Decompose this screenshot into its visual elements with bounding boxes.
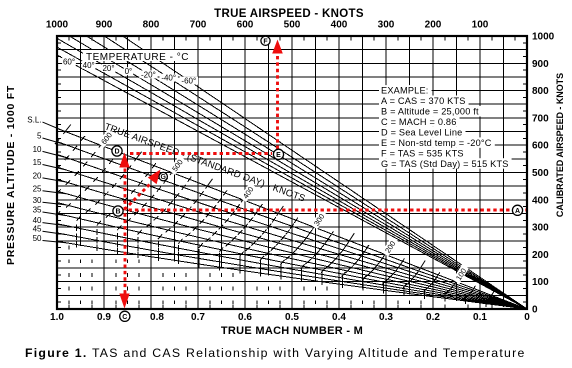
svg-text:0.3: 0.3 xyxy=(379,312,393,323)
top axis numbers xyxy=(46,20,489,31)
svg-text:C = MACH = 0.86: C = MACH = 0.86 xyxy=(381,117,457,127)
temperature title xyxy=(83,50,191,63)
temperature line -20 C xyxy=(87,36,528,309)
node C xyxy=(120,311,130,321)
svg-text:TEMPERATURE - °C: TEMPERATURE - °C xyxy=(86,52,189,63)
leader 15 xyxy=(43,165,67,170)
temp label -60 xyxy=(180,77,198,86)
svg-text:0: 0 xyxy=(532,305,538,316)
svg-text:700: 700 xyxy=(532,113,549,124)
node E xyxy=(273,149,283,159)
leader 5 xyxy=(43,138,67,145)
svg-text:1000: 1000 xyxy=(46,20,69,31)
altitude line 5 xyxy=(57,142,527,310)
scale label 400 xyxy=(239,183,257,203)
svg-text:EXAMPLE:: EXAMPLE: xyxy=(381,86,429,96)
svg-text:20°: 20° xyxy=(102,64,114,73)
svg-text:200: 200 xyxy=(532,250,549,261)
svg-text:0.1: 0.1 xyxy=(473,312,487,323)
svg-text:500: 500 xyxy=(532,168,549,179)
svg-text:1.0: 1.0 xyxy=(50,312,64,323)
arrow at G xyxy=(148,170,161,185)
svg-text:500: 500 xyxy=(284,20,301,31)
svg-text:E: E xyxy=(276,152,281,159)
altitude line 45 xyxy=(57,233,527,309)
scale label 500 xyxy=(169,156,187,176)
altitude line 10 xyxy=(57,154,527,309)
svg-text:50: 50 xyxy=(33,234,42,243)
red example path xyxy=(125,56,527,296)
svg-text:D: D xyxy=(114,149,119,156)
svg-text:0.2: 0.2 xyxy=(426,312,440,323)
svg-text:B: B xyxy=(115,209,120,216)
svg-text:F: F xyxy=(263,38,268,45)
temperature line 60 C xyxy=(57,55,527,309)
svg-text:200: 200 xyxy=(425,20,442,31)
svg-text:100: 100 xyxy=(532,277,549,288)
scale label 200 xyxy=(382,237,399,257)
node A xyxy=(512,205,522,215)
svg-text:A = CAS = 370 KTS: A = CAS = 370 KTS xyxy=(381,96,466,106)
arrow down at C xyxy=(119,294,129,309)
svg-text:-60°: -60° xyxy=(181,77,196,86)
svg-text:700: 700 xyxy=(190,20,207,31)
altitude line 25 xyxy=(57,191,527,309)
svg-text:G = TAS (Std Day) = 515 KTS: G = TAS (Std Day) = 515 KTS xyxy=(381,159,509,169)
leader 45 xyxy=(43,231,67,234)
svg-text:0.5: 0.5 xyxy=(285,312,299,323)
svg-text:0: 0 xyxy=(524,312,530,323)
leader 20 xyxy=(43,178,67,182)
red dotted CAS line A-B xyxy=(129,209,527,212)
temp label 20 xyxy=(102,64,116,73)
scale label 600 xyxy=(98,129,116,149)
leader 40 xyxy=(43,223,67,226)
temp label -40 xyxy=(160,74,178,83)
svg-text:20: 20 xyxy=(33,171,42,180)
red dotted line D-E xyxy=(130,152,272,155)
leader 50 xyxy=(43,241,67,243)
temp label -20 xyxy=(139,70,157,79)
svg-text:0.7: 0.7 xyxy=(191,312,205,323)
TAS std day scale ticks xyxy=(55,136,493,307)
svg-text:F = TAS = 535 KTS: F = TAS = 535 KTS xyxy=(381,148,464,158)
TAS std day scale long ticks xyxy=(63,125,496,298)
altitude line 35 xyxy=(57,213,527,309)
svg-text:300: 300 xyxy=(532,223,549,234)
red dotted line B-G xyxy=(125,183,152,210)
arrow up at D xyxy=(119,153,129,168)
altitude line 15 xyxy=(57,167,527,309)
temperature line 40 C xyxy=(57,47,527,309)
svg-text:25: 25 xyxy=(33,184,42,193)
svg-text:B = Altitude = 25,000 ft: B = Altitude = 25,000 ft xyxy=(381,107,479,117)
svg-text:0.6: 0.6 xyxy=(238,312,252,323)
svg-text:800: 800 xyxy=(143,20,160,31)
node F xyxy=(261,36,270,45)
altitude line 30 xyxy=(57,203,527,310)
svg-text:400: 400 xyxy=(331,20,348,31)
svg-text:35: 35 xyxy=(33,206,42,215)
example text block xyxy=(379,85,432,96)
altitude line 20 xyxy=(57,179,527,309)
altitude line 50 xyxy=(57,241,527,309)
svg-text:600: 600 xyxy=(532,141,549,152)
svg-text:100: 100 xyxy=(472,20,489,31)
svg-text:800: 800 xyxy=(532,86,549,97)
temperature line -40 C xyxy=(104,36,527,309)
svg-text:-40°: -40° xyxy=(161,74,176,83)
svg-text:60°: 60° xyxy=(63,58,75,67)
border minor ticks xyxy=(57,36,527,309)
scale label 300 xyxy=(310,210,327,230)
svg-text:CALIBRATED AIRSPEED - KNOTS: CALIBRATED AIRSPEED - KNOTS xyxy=(555,73,565,217)
svg-text:S.L.: S.L. xyxy=(27,116,41,125)
svg-text:900: 900 xyxy=(532,59,549,70)
svg-text:15: 15 xyxy=(33,158,42,167)
svg-text:A: A xyxy=(515,208,520,215)
svg-text:600: 600 xyxy=(237,20,254,31)
leader 10 xyxy=(43,151,67,157)
svg-text:D = Sea Level Line: D = Sea Level Line xyxy=(381,127,463,137)
svg-text:1000: 1000 xyxy=(532,32,555,43)
svg-text:45: 45 xyxy=(33,225,42,234)
altitude labels xyxy=(27,116,42,243)
right axis numbers xyxy=(532,32,555,316)
temperature line 0 C xyxy=(69,36,527,309)
svg-text:0.8: 0.8 xyxy=(150,312,164,323)
bottom axis numbers xyxy=(50,312,530,323)
svg-text:0°: 0° xyxy=(125,67,133,76)
plot border xyxy=(57,36,527,309)
leader 30 xyxy=(43,202,67,205)
altitude line S.L. xyxy=(57,128,527,309)
arrow up at F xyxy=(272,40,283,54)
scale label 100 xyxy=(453,264,470,284)
temperature line -60 C xyxy=(123,36,527,309)
red dotted TAS line E-F xyxy=(276,56,279,150)
red dotted Mach line B-C-D xyxy=(124,169,127,296)
svg-text:TRUE MACH NUMBER - M: TRUE MACH NUMBER - M xyxy=(221,325,363,337)
svg-text:G: G xyxy=(160,174,166,181)
svg-text:-20°: -20° xyxy=(141,70,156,79)
svg-text:5: 5 xyxy=(37,132,42,141)
altitude line 40 xyxy=(57,224,527,309)
temp label 0 xyxy=(124,67,133,76)
svg-text:10: 10 xyxy=(33,145,42,154)
svg-text:C: C xyxy=(122,314,127,321)
svg-text:900: 900 xyxy=(96,20,113,31)
svg-text:TRUE AIRSPEED - KNOTS: TRUE AIRSPEED - KNOTS xyxy=(214,8,364,20)
temp label 40 xyxy=(82,61,96,70)
temperature line 20 C xyxy=(57,38,527,309)
leader S.L. xyxy=(43,122,67,132)
svg-text:30: 30 xyxy=(33,196,42,205)
leader 25 xyxy=(43,191,67,194)
node B xyxy=(113,206,123,216)
node G xyxy=(159,172,167,181)
svg-text:300: 300 xyxy=(378,20,395,31)
svg-text:E = Non-std temp = -20°C: E = Non-std temp = -20°C xyxy=(381,138,492,148)
leader 35 xyxy=(43,212,67,216)
temp label 60 xyxy=(62,58,76,67)
svg-text:40°: 40° xyxy=(83,61,95,70)
svg-text:PRESSURE ALTITUDE - 1000 FT: PRESSURE ALTITUDE - 1000 FT xyxy=(5,85,17,265)
svg-text:0.9: 0.9 xyxy=(97,312,111,323)
svg-text:400: 400 xyxy=(532,195,549,206)
svg-text:0.4: 0.4 xyxy=(332,312,346,323)
svg-text:Figure 1. TAS and CAS Relatio: Figure 1. TAS and CAS Relationship with … xyxy=(25,346,526,360)
minor dashed mach lines xyxy=(69,246,421,304)
node D xyxy=(112,146,122,156)
